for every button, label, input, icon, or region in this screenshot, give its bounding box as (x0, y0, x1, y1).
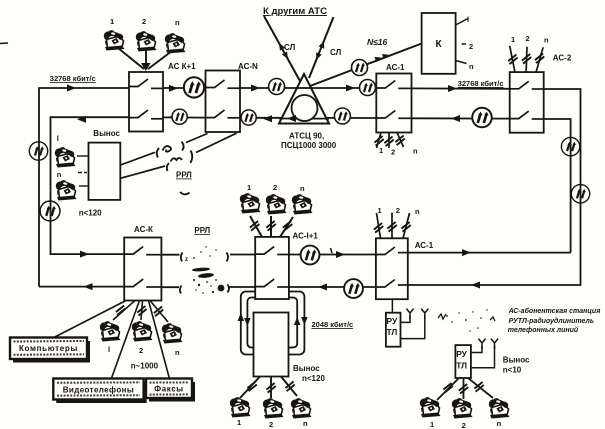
svg-text:N≤16: N≤16 (367, 37, 388, 47)
svg-text:1: 1 (430, 420, 434, 429)
svg-text:n: n (415, 207, 420, 216)
svg-text:32768 кбит/с: 32768 кбит/с (458, 79, 504, 88)
svg-text:n: n (175, 348, 180, 357)
svg-text:К: К (436, 39, 443, 50)
svg-text:1: 1 (247, 183, 251, 192)
svg-text:2: 2 (273, 183, 277, 192)
svg-text:Вынос: Вынос (293, 364, 320, 373)
svg-text:1: 1 (511, 35, 515, 44)
svg-text:АС-2: АС-2 (553, 54, 572, 63)
svg-text:АС-К: АС-К (134, 225, 153, 234)
svg-text:n: n (497, 419, 502, 428)
svg-text:n<120: n<120 (302, 374, 325, 383)
svg-text:РРЛ: РРЛ (176, 171, 192, 180)
svg-text:АС-N: АС-N (238, 62, 258, 71)
svg-text:n: n (175, 18, 180, 27)
svg-text:2: 2 (469, 42, 473, 51)
svg-text:n<120: n<120 (79, 209, 102, 218)
svg-text:n~1000: n~1000 (131, 362, 159, 371)
svg-text:n: n (469, 62, 474, 71)
svg-text:z: z (185, 257, 188, 263)
svg-text:2: 2 (139, 346, 143, 355)
svg-text:К другим АТС: К другим АТС (263, 6, 327, 17)
svg-text:телефонных линий: телефонных линий (508, 326, 579, 334)
svg-text:РУ: РУ (456, 349, 467, 359)
svg-text:n<10: n<10 (503, 366, 522, 375)
svg-text:РРЛ: РРЛ (194, 226, 210, 235)
svg-text:2: 2 (396, 206, 400, 215)
svg-text:2: 2 (391, 148, 395, 157)
svg-text:1: 1 (110, 17, 114, 26)
svg-text:СЛ: СЛ (284, 43, 296, 52)
svg-text:АС-1: АС-1 (386, 63, 405, 72)
svg-text:АС-1: АС-1 (415, 241, 434, 250)
svg-text:n: n (300, 184, 305, 193)
svg-text:РУ: РУ (387, 316, 398, 326)
svg-text:Компьютеры: Компьютеры (19, 344, 78, 353)
svg-text:РУТЛ-радиоудлинитель: РУТЛ-радиоудлинитель (509, 317, 594, 325)
svg-text:1: 1 (237, 418, 241, 427)
svg-text:Вынос: Вынос (93, 129, 120, 138)
svg-text:АТСЦ 90,: АТСЦ 90, (289, 132, 324, 141)
svg-text:АС К+1: АС К+1 (168, 62, 196, 71)
svg-text:АС-абонентская станция: АС-абонентская станция (508, 307, 601, 315)
svg-text:l: l (467, 15, 469, 24)
svg-text:1: 1 (378, 206, 382, 215)
svg-text:l: l (57, 134, 59, 143)
svg-text:ТЛ: ТЛ (456, 361, 467, 371)
svg-text:Факсы: Факсы (154, 384, 183, 393)
svg-text:Вынос: Вынос (503, 356, 530, 365)
svg-text:2: 2 (142, 17, 146, 26)
svg-text:АС-I+1: АС-I+1 (293, 232, 319, 241)
svg-text:ТЛ: ТЛ (387, 327, 398, 337)
svg-text:ПСЦ1000 3000: ПСЦ1000 3000 (281, 141, 337, 150)
svg-text:2: 2 (526, 34, 530, 43)
svg-text:2048 кбит/с: 2048 кбит/с (312, 320, 354, 329)
svg-text:Видеотелефоны: Видеотелефоны (63, 385, 134, 394)
svg-text:СЛ: СЛ (330, 48, 342, 57)
svg-text:1: 1 (379, 146, 383, 155)
svg-text:n: n (413, 147, 418, 156)
svg-text:n: n (303, 419, 308, 428)
svg-text:l: l (108, 345, 110, 354)
svg-text:n: n (544, 36, 549, 45)
svg-text:2: 2 (462, 421, 466, 429)
svg-text:2: 2 (269, 420, 273, 429)
svg-text:32768 кбит/с: 32768 кбит/с (50, 74, 96, 83)
svg-text:n: n (57, 170, 62, 179)
